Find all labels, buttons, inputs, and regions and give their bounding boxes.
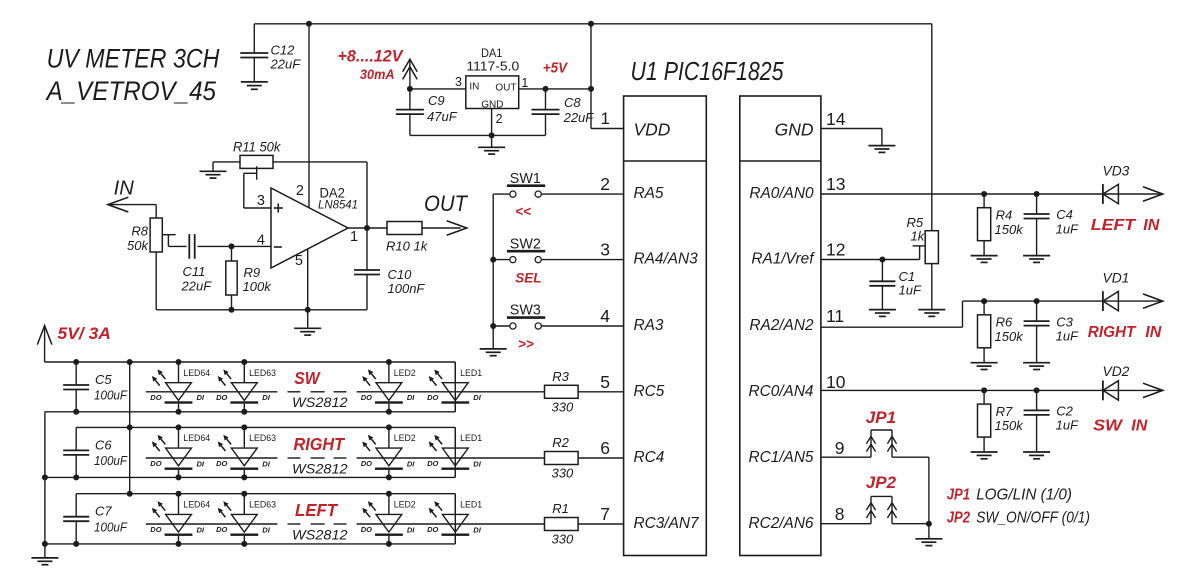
svg-text:DI: DI: [407, 525, 415, 534]
svg-text:DI: DI: [197, 459, 205, 468]
svg-text:C2: C2: [1056, 404, 1073, 419]
svg-text:C9: C9: [428, 93, 445, 108]
svg-text:LED63: LED63: [249, 500, 276, 510]
svg-text:RIGHT: RIGHT: [1088, 324, 1137, 341]
svg-text:100uF: 100uF: [94, 388, 128, 403]
svg-text:LED64: LED64: [183, 500, 210, 510]
svg-text:1117-5.0: 1117-5.0: [466, 59, 519, 73]
svg-text:DO: DO: [361, 393, 372, 402]
svg-text:RC2/AN6: RC2/AN6: [748, 515, 813, 532]
svg-text:GND: GND: [481, 99, 503, 110]
svg-text:SW_ON/OFF (0/1): SW_ON/OFF (0/1): [976, 510, 1090, 527]
svg-text:A_VETROV_45: A_VETROV_45: [45, 76, 216, 106]
svg-text:RC0/AN4: RC0/AN4: [748, 383, 813, 400]
svg-text:DI: DI: [473, 393, 481, 402]
svg-text:5: 5: [295, 253, 303, 269]
svg-text:DI: DI: [262, 459, 270, 468]
svg-text:IN: IN: [114, 177, 134, 200]
svg-text:IN: IN: [1131, 418, 1147, 435]
svg-text:1: 1: [601, 109, 610, 128]
svg-text:1uF: 1uF: [1056, 418, 1079, 433]
svg-text:DI: DI: [407, 393, 415, 402]
svg-text:LED1: LED1: [460, 433, 482, 443]
svg-text:SW2: SW2: [510, 235, 541, 252]
svg-text:C8: C8: [564, 95, 581, 110]
svg-text:3: 3: [455, 75, 462, 89]
svg-text:>>: >>: [518, 336, 534, 351]
svg-text:3: 3: [600, 240, 610, 260]
svg-text:12: 12: [826, 240, 845, 260]
svg-text:SEL: SEL: [515, 270, 541, 285]
svg-text:50k: 50k: [127, 238, 149, 253]
svg-text:11: 11: [826, 306, 844, 326]
svg-text:RC1/AN5: RC1/AN5: [748, 449, 813, 466]
svg-text:14: 14: [826, 109, 846, 129]
svg-text:+5V: +5V: [543, 60, 569, 77]
svg-text:WS2812: WS2812: [292, 395, 348, 410]
svg-text:VD2: VD2: [1103, 364, 1130, 379]
svg-text:R2: R2: [552, 435, 569, 450]
svg-text:DI: DI: [262, 393, 270, 402]
svg-text:WS2812: WS2812: [292, 527, 348, 542]
svg-text:JP1: JP1: [947, 487, 970, 504]
svg-text:100k: 100k: [243, 279, 273, 294]
svg-text:1uF: 1uF: [1056, 328, 1079, 343]
svg-text:DO: DO: [216, 393, 227, 402]
svg-text:150k: 150k: [995, 418, 1025, 433]
svg-text:DO: DO: [150, 525, 161, 534]
svg-text:C11: C11: [183, 264, 206, 279]
svg-text:JP1: JP1: [866, 408, 896, 427]
svg-text:R8: R8: [131, 224, 148, 239]
svg-text:DI: DI: [197, 393, 205, 402]
svg-text:100uF: 100uF: [94, 519, 128, 534]
svg-text:GND: GND: [775, 120, 814, 140]
svg-text:LED64: LED64: [183, 368, 210, 378]
svg-text:DO: DO: [150, 393, 161, 402]
svg-text:100uF: 100uF: [94, 453, 128, 468]
svg-text:LED64: LED64: [183, 433, 210, 443]
svg-text:10: 10: [826, 372, 846, 392]
svg-text:WS2812: WS2812: [292, 461, 348, 476]
svg-text:DA1: DA1: [481, 46, 503, 60]
svg-text:1: 1: [350, 229, 358, 245]
svg-text:LED2: LED2: [394, 368, 416, 378]
svg-text:LED1: LED1: [460, 500, 482, 510]
svg-text:C10: C10: [388, 267, 413, 282]
svg-text:LEFT: LEFT: [1091, 217, 1137, 234]
svg-text:+8....12V: +8....12V: [338, 47, 405, 66]
svg-text:150k: 150k: [995, 222, 1025, 237]
svg-text:SW1: SW1: [510, 170, 541, 187]
svg-text:1uF: 1uF: [1056, 221, 1079, 236]
svg-text:1uF: 1uF: [899, 283, 922, 298]
svg-text:RA2/AN2: RA2/AN2: [749, 317, 814, 334]
svg-text:VD3: VD3: [1103, 164, 1130, 179]
svg-text:13: 13: [826, 174, 845, 194]
svg-text:RC3/AN7: RC3/AN7: [634, 515, 700, 532]
svg-text:C12: C12: [271, 43, 296, 58]
svg-text:DO: DO: [216, 525, 227, 534]
svg-text:C6: C6: [95, 437, 112, 452]
svg-text:22uF: 22uF: [181, 279, 213, 294]
svg-text:DI: DI: [473, 525, 481, 534]
svg-text:100nF: 100nF: [388, 281, 426, 296]
svg-text:SW3: SW3: [510, 302, 541, 319]
svg-text:U1 PIC16F1825: U1 PIC16F1825: [631, 56, 784, 86]
svg-text:R11 50k: R11 50k: [233, 140, 282, 155]
svg-text:RA1/Vref: RA1/Vref: [751, 251, 815, 268]
svg-text:IN: IN: [1145, 324, 1161, 341]
svg-text:R9: R9: [244, 265, 261, 280]
svg-text:8: 8: [835, 504, 845, 524]
svg-text:DO: DO: [361, 459, 372, 468]
svg-text:LED2: LED2: [394, 433, 416, 443]
svg-text:6: 6: [600, 438, 610, 458]
svg-text:R6: R6: [996, 315, 1013, 330]
svg-text:SW: SW: [1093, 418, 1124, 435]
svg-text:C7: C7: [95, 504, 112, 519]
svg-text:2: 2: [296, 183, 304, 199]
svg-text:47uF: 47uF: [427, 109, 458, 124]
svg-text:DI: DI: [197, 525, 205, 534]
svg-text:5V/ 3A: 5V/ 3A: [58, 324, 111, 343]
svg-text:9: 9: [835, 438, 845, 458]
svg-text:30mA: 30mA: [360, 67, 395, 82]
svg-text:R4: R4: [996, 207, 1013, 222]
svg-text:R1: R1: [552, 501, 569, 516]
svg-text:JP2: JP2: [947, 510, 971, 527]
svg-text:LN8541: LN8541: [318, 197, 358, 211]
svg-text:150k: 150k: [995, 329, 1025, 344]
svg-text:IN: IN: [1143, 217, 1159, 234]
svg-text:1k: 1k: [911, 229, 926, 244]
svg-text:RIGHT: RIGHT: [294, 434, 346, 454]
svg-text:22uF: 22uF: [270, 57, 302, 72]
svg-text:DO: DO: [427, 525, 438, 534]
svg-text:R7: R7: [996, 404, 1013, 419]
svg-text:VDD: VDD: [634, 120, 671, 140]
svg-text:SW: SW: [294, 368, 321, 388]
svg-text:DI: DI: [407, 459, 415, 468]
svg-text:LED2: LED2: [394, 500, 416, 510]
svg-text:LED63: LED63: [249, 433, 276, 443]
svg-text:330: 330: [552, 532, 574, 547]
svg-text:RA4/AN3: RA4/AN3: [634, 251, 699, 268]
svg-text:DO: DO: [216, 459, 227, 468]
svg-text:1: 1: [521, 76, 528, 90]
svg-text:UV METER 3CH: UV METER 3CH: [47, 43, 221, 73]
svg-text:2: 2: [496, 112, 503, 126]
svg-text:LED1: LED1: [460, 368, 482, 378]
svg-text:DI: DI: [262, 525, 270, 534]
svg-text:330: 330: [552, 466, 574, 481]
svg-text:VD1: VD1: [1103, 271, 1130, 286]
svg-text:7: 7: [600, 504, 610, 524]
svg-text:JP2: JP2: [866, 473, 897, 492]
svg-text:RC5: RC5: [634, 383, 665, 400]
svg-text:RA5: RA5: [634, 185, 664, 202]
svg-text:RA3: RA3: [634, 317, 664, 334]
svg-text:3: 3: [257, 193, 265, 209]
svg-text:C3: C3: [1056, 314, 1073, 329]
svg-text:<<: <<: [515, 204, 531, 219]
svg-text:DO: DO: [361, 525, 372, 534]
svg-text:DO: DO: [427, 459, 438, 468]
svg-text:OUT: OUT: [495, 83, 516, 94]
svg-text:LEFT: LEFT: [295, 500, 338, 520]
svg-text:22uF: 22uF: [563, 110, 595, 125]
svg-text:DO: DO: [427, 393, 438, 402]
svg-text:RA0/AN0: RA0/AN0: [749, 185, 814, 202]
svg-text:LOG/LIN (1/0): LOG/LIN (1/0): [976, 487, 1072, 504]
svg-text:R10 1k: R10 1k: [386, 239, 429, 254]
svg-text:RC4: RC4: [634, 449, 665, 466]
svg-text:C4: C4: [1056, 207, 1073, 222]
svg-text:5: 5: [600, 372, 610, 392]
svg-text:C5: C5: [95, 372, 112, 387]
svg-text:DI: DI: [473, 459, 481, 468]
svg-text:IN: IN: [469, 81, 479, 92]
svg-text:4: 4: [600, 306, 610, 326]
svg-text:OUT: OUT: [424, 191, 468, 216]
svg-text:R3: R3: [552, 369, 569, 384]
svg-text:DO: DO: [150, 459, 161, 468]
svg-text:330: 330: [552, 399, 574, 414]
svg-text:LED63: LED63: [249, 368, 276, 378]
svg-text:2: 2: [600, 174, 610, 194]
